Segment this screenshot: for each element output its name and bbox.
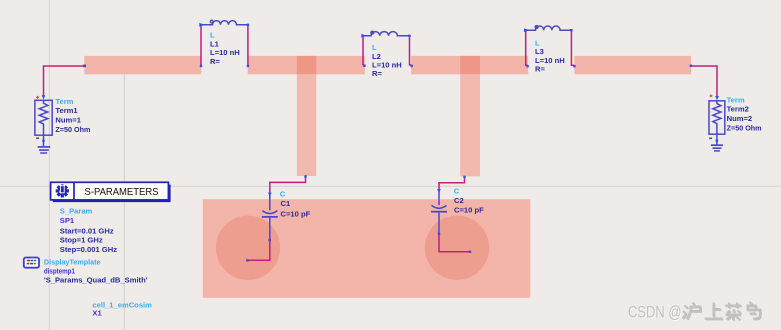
- svg-text:X1: X1: [92, 309, 102, 318]
- svg-text:Num=2: Num=2: [727, 114, 753, 123]
- svg-text:Step=0.001 GHz: Step=0.001 GHz: [60, 245, 117, 254]
- svg-text:C=10 pF: C=10 pF: [454, 206, 484, 215]
- svg-text:disptemp1: disptemp1: [44, 266, 76, 275]
- svg-text:L: L: [210, 30, 215, 39]
- svg-text:DisplayTemplate: DisplayTemplate: [44, 257, 101, 266]
- svg-text:'S_Params_Quad_dB_Smith': 'S_Params_Quad_dB_Smith': [44, 276, 148, 285]
- svg-text:Term1: Term1: [55, 106, 78, 115]
- svg-text:R=: R=: [372, 69, 382, 78]
- svg-text:CSDN @: CSDN @: [628, 303, 682, 322]
- svg-text:Start=0.01 GHz: Start=0.01 GHz: [60, 226, 114, 235]
- svg-text:C2: C2: [454, 196, 464, 205]
- svg-text:C1: C1: [281, 199, 291, 208]
- svg-text:Num=1: Num=1: [55, 116, 81, 125]
- svg-text:Z=50 Ohm: Z=50 Ohm: [55, 125, 90, 134]
- svg-text:Term2: Term2: [727, 105, 749, 114]
- svg-text:Stop=1 GHz: Stop=1 GHz: [60, 236, 103, 245]
- svg-text:Term: Term: [55, 97, 73, 106]
- svg-text:C: C: [454, 186, 460, 195]
- svg-text:S-PARAMETERS: S-PARAMETERS: [85, 187, 159, 198]
- svg-text:SP1: SP1: [60, 216, 75, 225]
- svg-text:L2: L2: [372, 52, 381, 61]
- svg-text:L=10 nH: L=10 nH: [210, 48, 240, 57]
- svg-text:S_Param: S_Param: [60, 207, 93, 216]
- svg-text:C: C: [280, 190, 286, 199]
- svg-text:L: L: [372, 43, 377, 52]
- svg-text:R=: R=: [535, 64, 545, 73]
- svg-text:L1: L1: [210, 39, 220, 48]
- svg-text:C=10 pF: C=10 pF: [281, 210, 311, 219]
- svg-text:R=: R=: [210, 57, 220, 66]
- svg-text:Term: Term: [727, 95, 745, 104]
- svg-text:Z=50 Ohm: Z=50 Ohm: [727, 123, 762, 132]
